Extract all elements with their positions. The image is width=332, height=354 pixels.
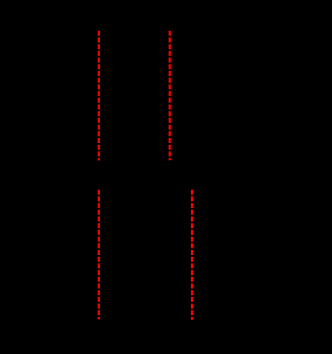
wire marker line 4 (bottom-right dashed red vertical) [191, 190, 193, 320]
wire marker line 2 (top-right dashed red vertical) [169, 31, 171, 161]
wire marker line 1 (top-left dashed red vertical) [98, 31, 100, 161]
wire marker line 3 (bottom-left dashed red vertical) [98, 190, 100, 320]
